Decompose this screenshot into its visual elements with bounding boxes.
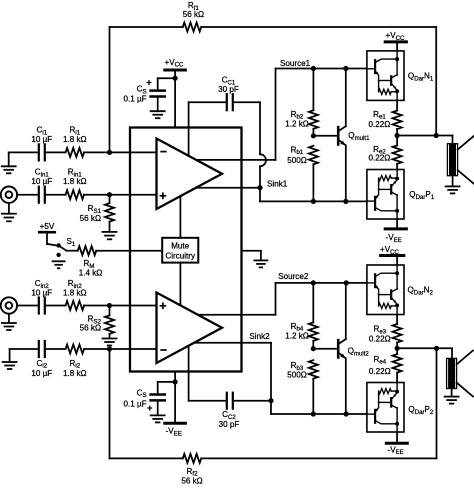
svg-text:Mute: Mute [171,242,189,251]
svg-text:0.1 µF: 0.1 µF [123,94,146,103]
svg-text:30 pF: 30 pF [218,85,239,94]
svg-text:56 kΩ: 56 kΩ [181,477,202,485]
svg-text:Sink1: Sink1 [267,179,288,188]
svg-text:56 kΩ: 56 kΩ [80,214,101,223]
svg-text:56 kΩ: 56 kΩ [183,10,204,19]
svg-text:10 µF: 10 µF [31,369,52,378]
svg-text:Sink2: Sink2 [249,332,270,341]
svg-text:0.1 µF: 0.1 µF [123,399,146,408]
svg-text:+: + [146,78,151,88]
svg-text:Source2: Source2 [278,272,309,281]
svg-text:0.22Ω: 0.22Ω [369,367,391,376]
svg-text:56 kΩ: 56 kΩ [80,324,101,333]
svg-text:10 µF: 10 µF [31,177,52,186]
svg-text:10 µF: 10 µF [31,135,52,144]
svg-text:Circuitry: Circuitry [165,251,196,260]
svg-text:10 µF: 10 µF [31,289,52,298]
svg-text:0.22Ω: 0.22Ω [368,120,390,129]
svg-text:500Ω: 500Ω [287,156,307,165]
svg-text:1.4 kΩ: 1.4 kΩ [79,268,103,277]
svg-text:1.2 kΩ: 1.2 kΩ [285,332,309,341]
svg-text:0.22Ω: 0.22Ω [368,153,390,162]
svg-text:Source1: Source1 [280,59,311,68]
svg-text:500Ω: 500Ω [287,371,307,380]
svg-text:1.2 kΩ: 1.2 kΩ [285,119,309,128]
svg-text:0.22Ω: 0.22Ω [369,334,391,343]
svg-text:30 pF: 30 pF [219,420,240,429]
svg-text:1.8 kΩ: 1.8 kΩ [63,135,87,144]
svg-text:1.8 kΩ: 1.8 kΩ [63,177,87,186]
svg-text:1.8 kΩ: 1.8 kΩ [63,369,87,378]
svg-text:+5V: +5V [40,222,55,231]
svg-text:1.8 kΩ: 1.8 kΩ [63,289,87,298]
svg-text:+: + [147,403,152,413]
